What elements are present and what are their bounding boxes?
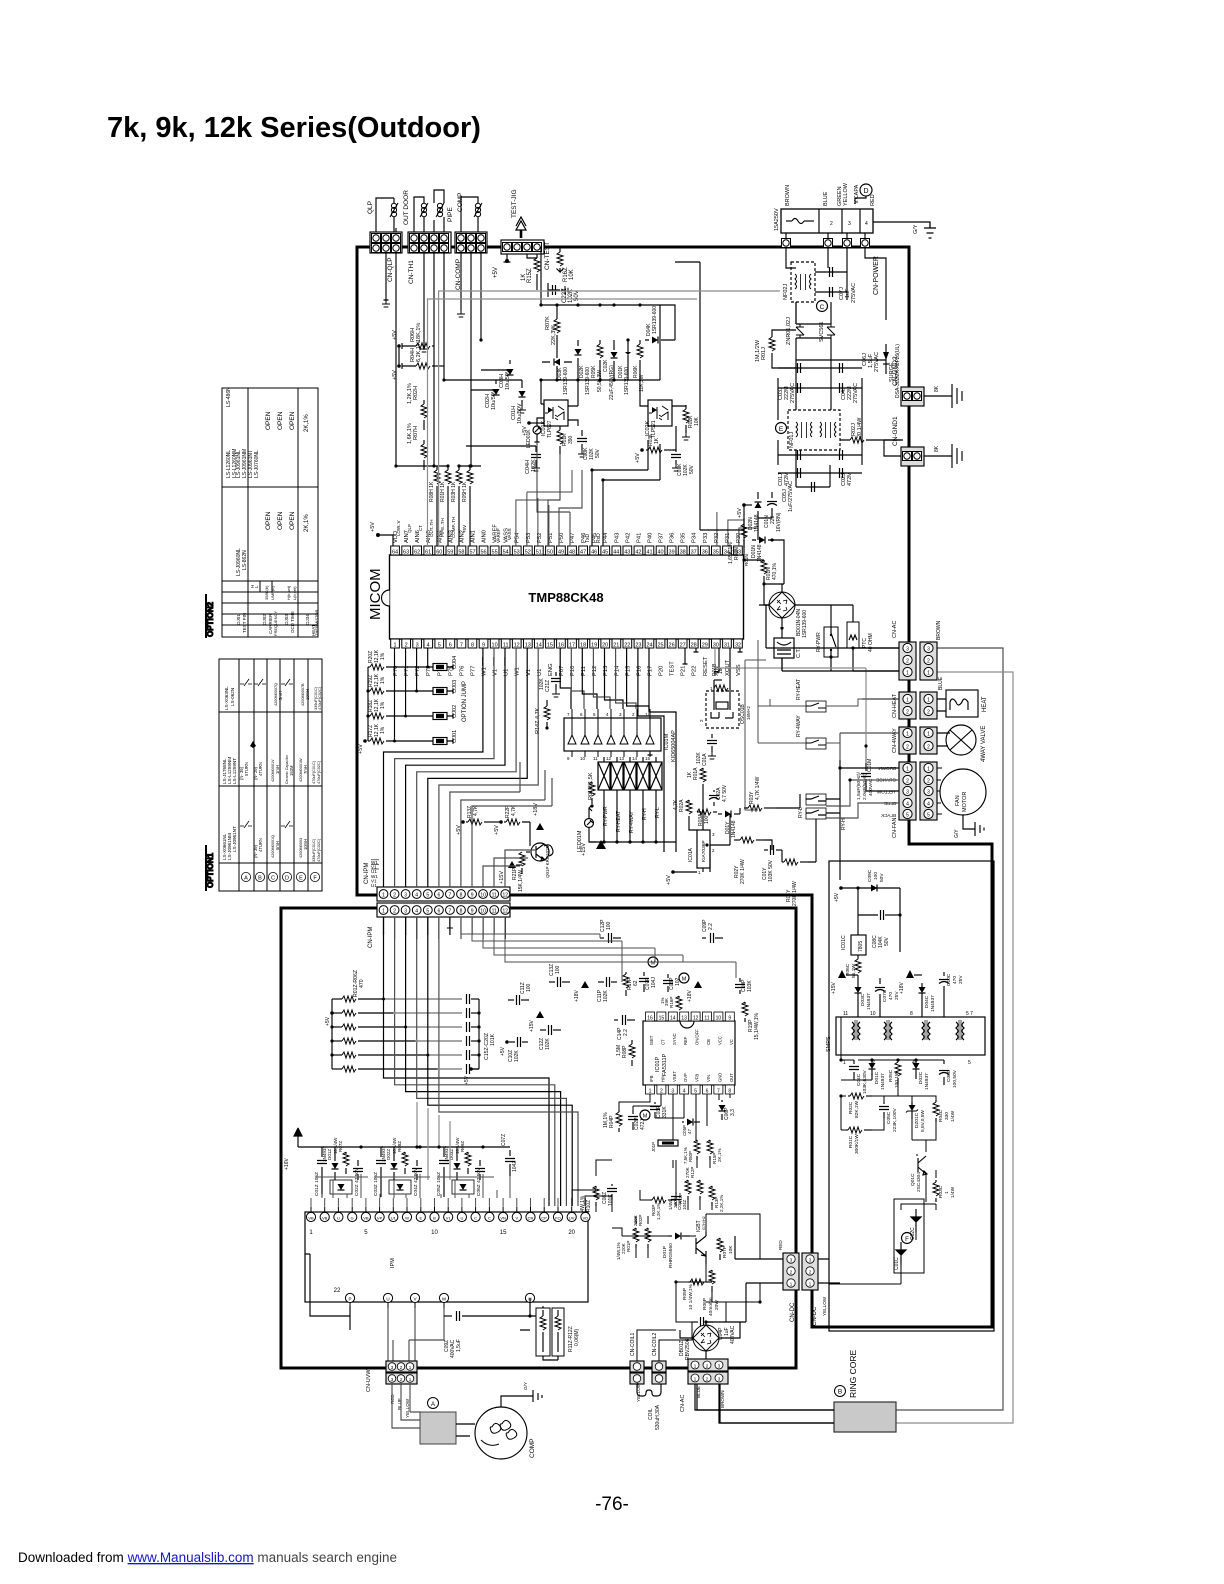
+15V arrow	[838, 970, 846, 978]
resistor R03P 1,2K,1%	[650, 1199, 652, 1201]
svg-text:220K: 220K	[621, 1242, 626, 1254]
svg-text:CN-IPM: CN-IPM	[364, 863, 370, 884]
svg-text:V: V	[413, 1297, 416, 1302]
wire QLP sensor	[376, 198, 396, 232]
svg-text:+15V: +15V	[581, 843, 587, 856]
connector CN-HEAT	[899, 692, 916, 719]
svg-text:470: 470	[888, 992, 894, 1000]
svg-text:3: 3	[671, 1089, 674, 1095]
connector CN-GND2	[901, 387, 924, 406]
svg-text:4: 4	[415, 893, 418, 899]
svg-text:M: M	[643, 1114, 648, 1120]
svg-text:14: 14	[670, 1016, 676, 1022]
svg-text:8: 8	[460, 893, 463, 899]
svg-text:1: 1	[393, 643, 396, 649]
fuse in terminal 1	[786, 220, 792, 222]
resistor R01M symbol	[591, 782, 593, 784]
diode D01P RHRG5560	[668, 1235, 672, 1237]
svg-text:+18V: +18V	[574, 990, 580, 1002]
svg-text:CN-FAN: CN-FAN	[892, 818, 898, 839]
svg-text:10,1/4W: 10,1/4W	[455, 1137, 460, 1154]
svg-text:OPTION2: OPTION2	[206, 601, 215, 637]
svg-text:C02C: C02C	[910, 1227, 916, 1240]
svg-text:V: V	[515, 1216, 518, 1221]
svg-text:VB: VB	[363, 1216, 369, 1221]
svg-text:5 7: 5 7	[966, 1011, 973, 1017]
svg-text:1N4937: 1N4937	[880, 1073, 886, 1090]
svg-text:BLUE: BLUE	[938, 676, 944, 690]
svg-text:28: 28	[691, 643, 697, 649]
svg-text:2K,1%: 2K,1%	[304, 514, 310, 532]
svg-text:C01Z 105Z: C01Z 105Z	[314, 1172, 320, 1196]
IGBT collector rail to CN-DC	[676, 1214, 760, 1322]
svg-text:10K: 10K	[569, 269, 575, 280]
resistor R05P 10 1/4W,1%	[688, 1281, 690, 1283]
svg-text:D02Z: D02Z	[386, 1149, 391, 1160]
svg-text:3,3: 3,3	[730, 1109, 736, 1116]
svg-text:9: 9	[728, 1016, 731, 1022]
svg-text:10K: 10K	[728, 1245, 734, 1254]
svg-text:7mH: 7mH	[303, 765, 308, 774]
svg-text:2: 2	[927, 659, 930, 665]
svg-text:100: 100	[555, 965, 561, 974]
svg-text:CN-GND2: CN-GND2	[892, 356, 899, 386]
svg-text:LS-L1260NM: LS-L1260NM	[232, 449, 238, 478]
connector CN-COMP	[455, 232, 487, 253]
svg-text:+5V: +5V	[493, 267, 499, 278]
+18V +15V marks	[536, 823, 544, 830]
svg-text:GND: GND	[717, 1073, 722, 1082]
capacitor C03H 10u/50V	[481, 360, 510, 370]
svg-text:COMP: COMP	[457, 193, 464, 213]
svg-text:40 OHM: 40 OHM	[868, 633, 874, 652]
relay coil RY-PWR	[598, 762, 610, 790]
svg-text:10mH: 10mH	[305, 689, 310, 700]
svg-text:25V: 25V	[958, 975, 964, 984]
svg-text:J01P: J01P	[651, 1142, 656, 1152]
svg-text:2: 2	[393, 909, 396, 915]
connector CN-COIL2	[652, 1361, 666, 1372]
FA5311P bottom pin wires	[619, 1094, 730, 1140]
svg-text:2: 2	[393, 893, 396, 899]
svg-text:F: F	[905, 1237, 909, 1243]
svg-text:RBV2506: RBV2506	[685, 1338, 691, 1360]
line filter NF02J	[791, 262, 815, 302]
svg-text:39: 39	[669, 550, 675, 556]
capacitor C01N 220 16V(RN)	[771, 492, 773, 498]
capacitor C13Z 100	[549, 981, 555, 983]
svg-text:TEST PIN: TEST PIN	[242, 613, 247, 633]
grey return bus upper	[428, 291, 781, 546]
connector CN-GND1	[901, 447, 924, 466]
svg-text:OPEN: OPEN	[277, 511, 284, 530]
varistor ZNR01,02J	[796, 324, 804, 338]
svg-text:+18V: +18V	[899, 982, 905, 994]
svg-text:P50: P50	[559, 533, 565, 543]
svg-text:4: 4	[927, 802, 930, 808]
svg-text:C07C: C07C	[882, 989, 888, 1002]
svg-text:103K: 103K	[747, 980, 753, 992]
wire stubs micom top pins	[516, 470, 756, 546]
opto coupler IC02K TLP521	[648, 400, 672, 426]
svg-text:63: 63	[403, 550, 409, 556]
svg-text:2: 2	[927, 779, 930, 785]
svg-text:62: 62	[414, 550, 420, 556]
svg-text:OPTION1: OPTION1	[206, 852, 215, 888]
connector CN-COIL1	[630, 1361, 644, 1372]
compressor COMP	[475, 1407, 527, 1459]
svg-text:50V: 50V	[595, 448, 601, 458]
svg-text:7k, 9k, 12k Series(Outdoor): 7k, 9k, 12k Series(Outdoor)	[107, 112, 481, 144]
svg-text:RY-4WAY: RY-4WAY	[796, 715, 802, 737]
svg-text:SYNC: SYNC	[672, 1033, 677, 1045]
svg-text:CN-AC: CN-AC	[680, 1395, 686, 1412]
svg-text:15: 15	[500, 1230, 507, 1236]
svg-text:QLP: QLP	[407, 524, 412, 533]
svg-text:AIN0: AIN0	[482, 530, 488, 543]
svg-text:42: 42	[635, 550, 641, 556]
svg-text:1: 1	[927, 698, 930, 704]
svg-text:OJ04: OJ04	[452, 656, 458, 669]
svg-text:OJ34: OJ34	[305, 614, 310, 625]
capacitor C09Z 400VAC 1,5uF	[444, 1315, 452, 1317]
svg-text:2: 2	[712, 848, 715, 853]
svg-text:3: 3	[906, 647, 909, 653]
transistor Q01C 2SC4304	[918, 1156, 927, 1175]
svg-text:1N4937: 1N4937	[444, 1145, 449, 1162]
svg-text:OJ03: OJ03	[284, 614, 289, 625]
jumper OJ02	[433, 713, 447, 720]
capacitor C04P 1uF 400VAC	[692, 1321, 698, 1323]
svg-text:KIA7036P: KIA7036P	[701, 840, 707, 862]
svg-text:1mH: 1mH	[275, 765, 280, 774]
crystal OSC01B 16M+2	[706, 691, 739, 728]
svg-text:E: E	[419, 1216, 422, 1221]
svg-text:20W: 20W	[714, 1300, 720, 1310]
snubber group 2	[380, 1147, 382, 1157]
svg-text:COIL: COIL	[648, 1408, 654, 1420]
svg-text:50V: 50V	[884, 936, 890, 946]
resistor R17Z 12,1K 1%	[368, 740, 370, 742]
svg-text:1N4937: 1N4937	[930, 995, 936, 1012]
svg-text:P44: P44	[603, 532, 609, 543]
svg-text:270K 1/4W: 270K 1/4W	[792, 881, 798, 906]
fan motor	[940, 769, 986, 815]
current transformer C.T.	[774, 638, 794, 658]
capacitor C01A 102K	[711, 734, 713, 738]
capacitor C03K 102K 50V	[581, 430, 583, 436]
svg-text:CB: CB	[706, 1039, 711, 1045]
svg-text:22K,3W: 22K,3W	[551, 325, 557, 345]
svg-text:270K: 270K	[685, 1166, 690, 1178]
svg-text:48: 48	[569, 550, 575, 556]
svg-text:470uF(C02C): 470uF(C02C)	[317, 760, 321, 784]
svg-text:1,5uF(60Hz)/: 1,5uF(60Hz)/	[856, 771, 862, 800]
wires to connectors	[840, 648, 899, 791]
resistor R07K 22K,3W	[556, 305, 558, 319]
diode D02K 1SR139-600	[577, 340, 579, 346]
svg-text:59: 59	[447, 550, 453, 556]
svg-text:8K: 8K	[934, 445, 940, 452]
svg-text:10,1/4W: 10,1/4W	[333, 1137, 338, 1154]
svg-text:RING CORE: RING CORE	[848, 1350, 858, 1399]
wire pin to row	[416, 648, 418, 691]
svg-text:CN-COIL1: CN-COIL1	[630, 1332, 636, 1356]
snubber rail bottoms	[316, 1176, 494, 1178]
svg-text:44: 44	[613, 550, 619, 556]
+18V arrow	[906, 970, 914, 978]
svg-text:35: 35	[713, 550, 719, 556]
wires TH1 sensors	[414, 190, 444, 232]
svg-text:30: 30	[713, 643, 719, 649]
wires UVW to CN-UVW	[388, 1308, 444, 1363]
svg-text:339uF(C01C): 339uF(C01C)	[312, 838, 316, 862]
svg-text:2: 2	[927, 745, 930, 751]
resistor R18Z 12,1K 1%	[368, 715, 370, 717]
svg-text:HIN.: HIN.	[660, 1074, 665, 1082]
svg-text:18K,1%: 18K,1%	[416, 323, 422, 342]
svg-text:R15Z: R15Z	[527, 268, 533, 283]
svg-text:51: 51	[536, 550, 542, 556]
svg-text:CN-GND1: CN-GND1	[892, 416, 899, 446]
svg-text:275VAC: 275VAC	[790, 383, 796, 403]
svg-text:4WAY VALVE: 4WAY VALVE	[981, 726, 987, 762]
svg-text:3: 3	[404, 893, 407, 899]
CN-IPM row2 verticals through resistor rows to IPM pins	[384, 917, 550, 1206]
svg-text:CN-DC: CN-DC	[790, 1302, 796, 1322]
opto coupler IC01K TLP627	[544, 400, 568, 426]
transistor Q01P KRC102M	[531, 843, 549, 861]
svg-text:1N4937: 1N4937	[866, 993, 872, 1010]
svg-text:BROWN: BROWN	[720, 1390, 725, 1408]
svg-text:10: 10	[870, 1011, 876, 1017]
inductor COIL 530uH,30A	[637, 1384, 661, 1396]
svg-text:OUT: OUT	[729, 1073, 734, 1082]
svg-text:R05P: R05P	[682, 1288, 688, 1300]
resistor R04P 1M,1%	[618, 1110, 620, 1112]
svg-text:64: 64	[392, 550, 398, 556]
svg-text:+5V: +5V	[462, 525, 467, 533]
AC rails to CN-AC	[766, 605, 899, 671]
resistor R19Z 12,1K 1%	[368, 690, 370, 692]
svg-text:1: 1	[649, 1089, 652, 1095]
resistor R17P 62	[625, 972, 627, 974]
svg-text:18: 18	[580, 643, 586, 649]
svg-text:IC01C: IC01C	[841, 935, 847, 950]
svg-text:1: 1	[927, 732, 930, 738]
capacitor C07J 1uF 275VAC	[815, 272, 847, 292]
SMPS block thin border	[829, 861, 994, 1331]
capacitor C06P 3,3	[721, 1100, 723, 1102]
svg-text:YELLOW: YELLOW	[636, 1382, 641, 1402]
jumper OJ04	[433, 664, 447, 671]
svg-text:4TURN: 4TURN	[258, 762, 263, 776]
svg-text:2.2: 2.2	[708, 923, 714, 930]
svg-text:C10C: C10C	[946, 973, 952, 986]
svg-text:RY-H: RY-H	[841, 818, 847, 830]
svg-text:R50P: R50P	[688, 1151, 693, 1162]
capacitor C07P 104J	[643, 972, 645, 976]
svg-text:50V: 50V	[689, 464, 695, 474]
capacitor C04C 103K,630V	[853, 1060, 855, 1064]
svg-text:M: M	[682, 977, 687, 983]
svg-text:C05Z 105Z: C05Z 105Z	[436, 1172, 442, 1196]
svg-text:5: 5	[426, 909, 429, 915]
svg-text:R06P: R06P	[702, 1298, 708, 1310]
svg-text:C03Z 105Z: C03Z 105Z	[373, 1172, 379, 1196]
svg-text:LS-J0760NL: LS-J0760NL	[254, 450, 260, 478]
connector CN-4WAY	[899, 727, 916, 754]
svg-text:QLP: QLP	[367, 201, 374, 214]
main thick border outline	[357, 247, 992, 1327]
svg-text:P76: P76	[459, 666, 465, 676]
LED LED01K	[533, 426, 541, 434]
svg-text:4: 4	[683, 1089, 686, 1095]
svg-text:2: 2	[906, 779, 909, 785]
Y wires	[710, 760, 840, 880]
wire pin to row	[394, 648, 396, 741]
svg-text:IPM: IPM	[390, 1258, 396, 1268]
svg-text:1: 1	[927, 767, 930, 773]
node 22 wire	[349, 1316, 351, 1330]
svg-text:BROWN: BROWN	[936, 620, 942, 640]
svg-text:14: 14	[632, 756, 638, 761]
svg-text:1/4W: 1/4W	[950, 1110, 956, 1122]
svg-text:CN-TH1: CN-TH1	[408, 260, 415, 284]
svg-text:UMP(b): UMP(b)	[270, 586, 275, 600]
svg-text:100: 100	[526, 983, 532, 992]
svg-text:OPEN: OPEN	[289, 411, 296, 430]
surge absorber SURGE	[885, 344, 887, 374]
resistor R03K 1K	[646, 449, 648, 451]
svg-text:C: C	[271, 876, 275, 882]
svg-text:LS-J0961NT: LS-J0961NT	[232, 826, 237, 852]
zener DZ01C 5,6V,0,5W	[906, 1105, 918, 1113]
svg-text:3: 3	[906, 790, 909, 796]
svg-text:102K: 102K	[539, 678, 545, 690]
svg-text:D01C: D01C	[874, 1071, 880, 1084]
capacitor C02K 22uF,450V(RG)	[613, 340, 615, 350]
svg-text:P37: P37	[659, 533, 665, 543]
svg-text:COMP: COMP	[529, 1439, 536, 1459]
ring core	[834, 1402, 896, 1432]
svg-text:OCD TIME: OCD TIME	[290, 611, 295, 633]
circled C	[817, 301, 828, 312]
svg-text:11: 11	[503, 643, 509, 649]
svg-text:5: 5	[927, 813, 930, 819]
capacitor C01P 104Z	[675, 1192, 677, 1194]
svg-text:LS-L1259NT: LS-L1259NT	[232, 758, 237, 784]
capacitor C11P 102K	[598, 981, 604, 983]
svg-text:VAREF: VAREF	[496, 528, 501, 543]
svg-text:15: 15	[659, 1016, 665, 1022]
wire pin to row	[405, 648, 407, 716]
line filter NF01J	[788, 410, 840, 450]
svg-text:26: 26	[669, 643, 675, 649]
svg-text:7: 7	[460, 643, 463, 649]
svg-text:3: 3	[619, 712, 622, 717]
svg-text:10: 10	[480, 909, 486, 915]
capacitor C02H 10u/50V	[471, 380, 496, 390]
svg-text:400VAC: 400VAC	[730, 1325, 736, 1344]
svg-text:3: 3	[404, 909, 407, 915]
svg-text:R12P: R12P	[690, 1167, 695, 1179]
svg-text:1uF/275VAC: 1uF/275VAC	[788, 481, 794, 512]
grey bus micom right to fan section	[715, 648, 866, 763]
svg-text:0,06(M): 0,06(M)	[574, 1328, 580, 1346]
svg-text:8: 8	[460, 909, 463, 915]
transformer SMPS	[836, 1017, 985, 1055]
svg-text:15,1/4W,1%: 15,1/4W,1%	[754, 1012, 760, 1040]
svg-text:E: E	[299, 876, 303, 882]
relay coil RY-HEAT	[611, 762, 623, 790]
svg-text:16: 16	[647, 1016, 653, 1022]
svg-text:15A250V: 15A250V	[774, 208, 780, 231]
svg-text:U: U	[337, 1216, 340, 1221]
resistor R02Y 270K 1/4W	[734, 839, 740, 841]
svg-text:OUT DOOR: OUT DOOR	[403, 190, 410, 225]
svg-text:1: 1	[927, 671, 930, 677]
svg-text:7: 7	[717, 1089, 720, 1095]
resistor R02K 10K	[685, 405, 687, 409]
connector pins CN-POWER	[782, 239, 791, 248]
svg-text:1: 1	[698, 870, 701, 875]
wire drops from CN-POWER	[786, 248, 886, 320]
svg-text:3: 3	[712, 832, 715, 837]
svg-text:D: D	[285, 876, 289, 882]
svg-text:C.T.: C.T.	[796, 648, 802, 658]
smps internal wires	[841, 1017, 944, 1284]
svg-text:RED: RED	[778, 1240, 783, 1250]
svg-text:52: 52	[525, 550, 531, 556]
svg-text:1: 1	[944, 1191, 950, 1194]
svg-text:B: B	[258, 876, 262, 882]
IPM top pins to snubbers	[310, 1198, 312, 1206]
ground	[952, 384, 962, 408]
svg-text:104Z: 104Z	[512, 1161, 518, 1172]
diode D04K 1SR139-600	[652, 337, 658, 344]
resistor R02H 1,2K,1%	[423, 400, 425, 404]
svg-text:1,6K,1%: 1,6K,1%	[407, 423, 413, 444]
svg-text:5TURN: 5TURN	[244, 762, 249, 776]
svg-text:VFB: VFB	[695, 1074, 700, 1082]
svg-text:3: 3	[927, 647, 930, 653]
svg-text:104J: 104J	[651, 977, 657, 988]
svg-text:CT: CT	[418, 525, 423, 531]
capacitor C02P 472J	[632, 1110, 634, 1114]
right margin wire B	[896, 672, 1013, 1423]
svg-text:8K: 8K	[934, 385, 940, 392]
svg-text:COMP..TH: COMP..TH	[451, 517, 456, 538]
svg-text:16V(RN): 16V(RN)	[776, 512, 782, 532]
capacitor C07Z 104Z	[509, 1150, 511, 1156]
svg-text:61: 61	[425, 550, 431, 556]
thermistor OUT DOOR	[420, 203, 428, 217]
svg-text:VIN.: VIN.	[706, 1074, 711, 1082]
svg-text:102K: 102K	[545, 1038, 551, 1050]
svg-text:5: 5	[694, 1089, 697, 1095]
svg-text:1%: 1%	[380, 726, 386, 734]
svg-text:RY-L: RY-L	[798, 807, 804, 818]
4way valve	[946, 725, 976, 755]
svg-text:G/Y: G/Y	[523, 1382, 528, 1390]
diode D04C 1N4937	[919, 987, 926, 993]
LED LED01M	[585, 819, 594, 828]
svg-text:P77: P77	[471, 666, 477, 676]
svg-text:CR: CR	[528, 1216, 534, 1221]
svg-text:+5V: +5V	[635, 453, 641, 463]
svg-text:VP: VP	[377, 1216, 383, 1221]
